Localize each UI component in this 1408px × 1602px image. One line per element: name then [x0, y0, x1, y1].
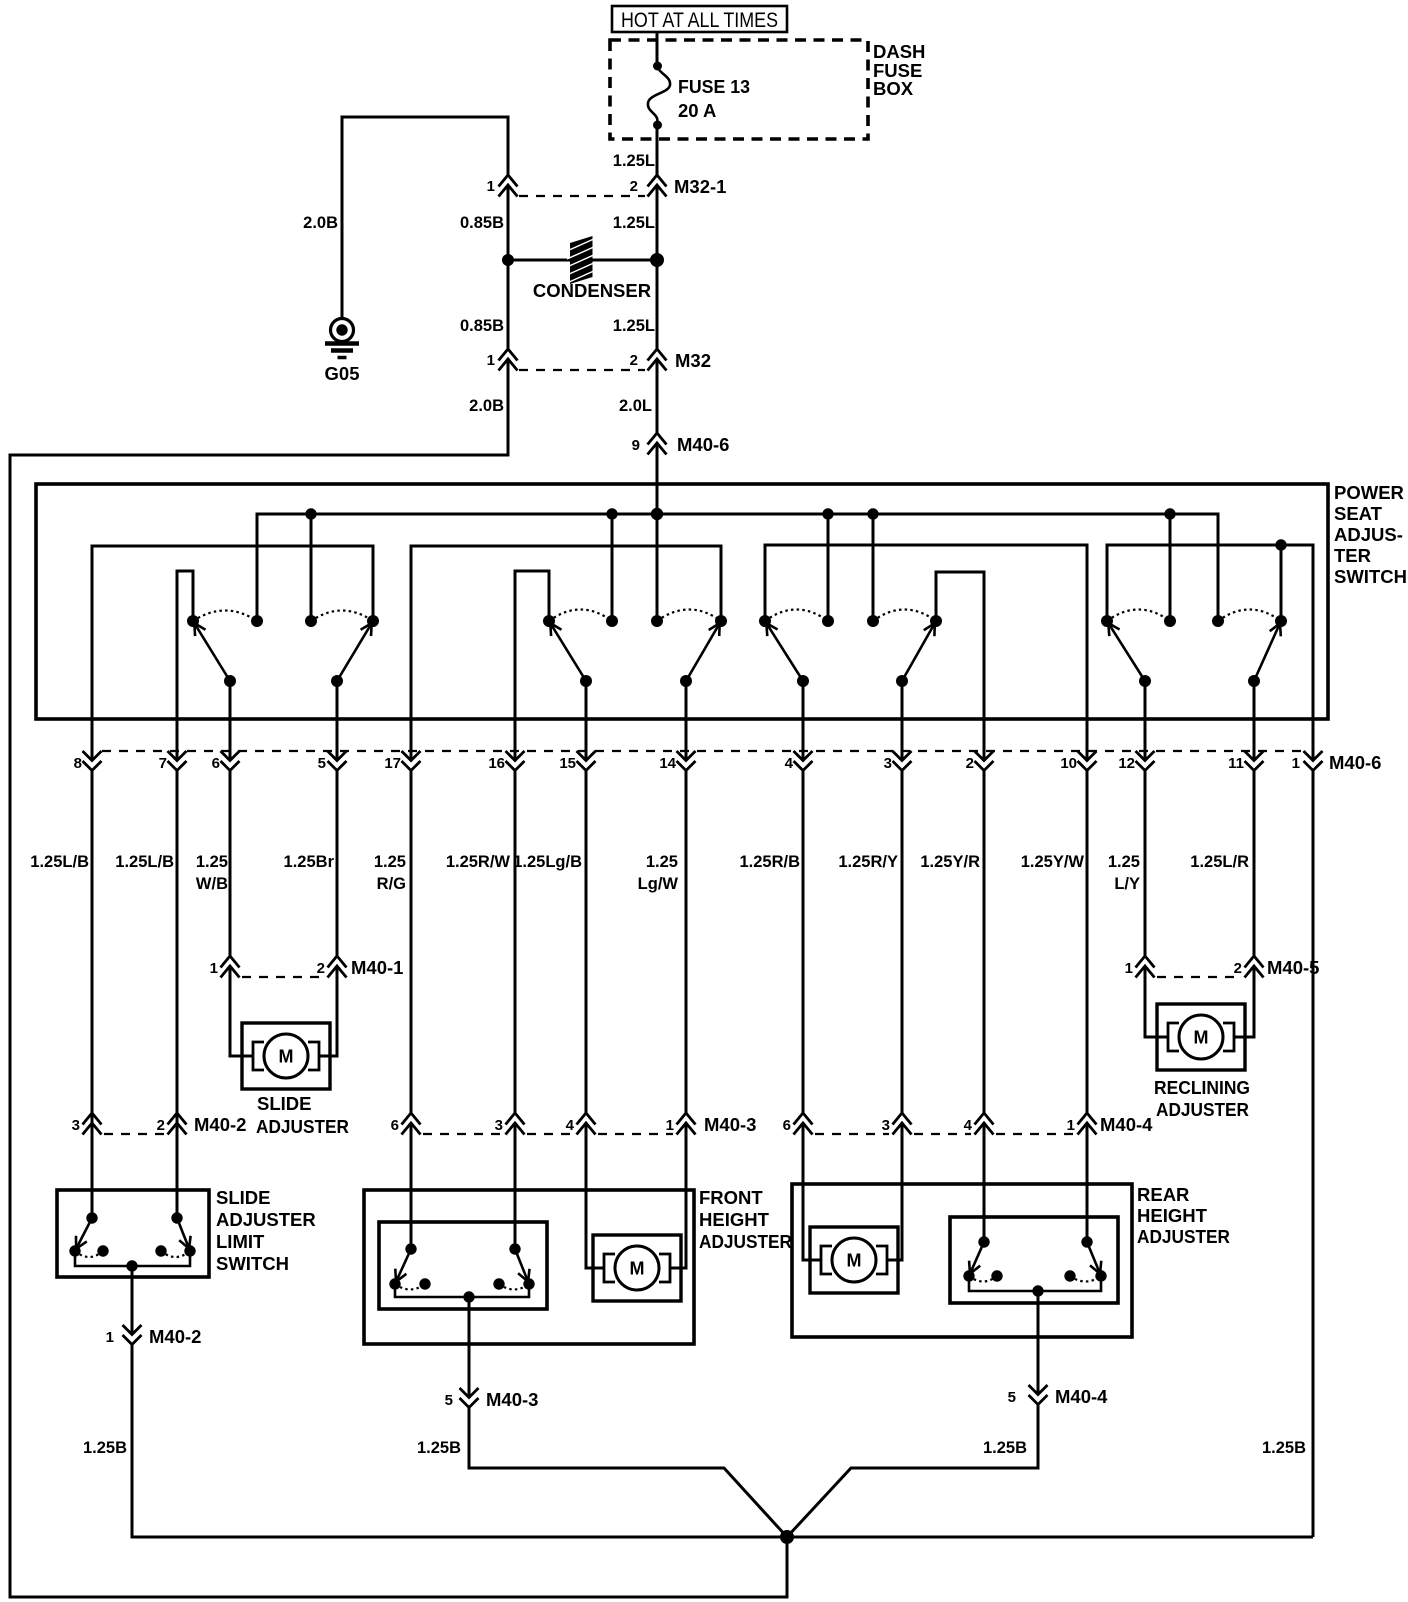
wire from hot feed into fuse box — [656, 31, 659, 66]
svg-text:8: 8 — [74, 755, 82, 772]
connector M40-3 pin 1 — [666, 1113, 757, 1135]
svg-text:M40-2: M40-2 — [194, 1114, 246, 1135]
wire condenser link — [508, 259, 657, 262]
rear switch blades — [969, 1242, 984, 1276]
svg-text:1.25L/B: 1.25L/B — [30, 853, 89, 871]
connector M40-6 pin 8 — [74, 751, 102, 772]
switch 3 feed wire to pin 10 — [765, 545, 1087, 760]
svg-text:HEIGHT: HEIGHT — [1137, 1205, 1208, 1226]
rear switch contacts — [978, 1236, 989, 1247]
dashed connector link M40-1 — [242, 976, 324, 978]
svg-text:SLIDE: SLIDE — [216, 1187, 270, 1208]
connector M32-1 pin 1 — [487, 175, 518, 197]
svg-text:1: 1 — [487, 178, 495, 195]
connector M40-4 pin 4 — [964, 1113, 994, 1135]
svg-text:6: 6 — [783, 1117, 791, 1134]
switch 1 feed wire from pin 8 — [92, 546, 373, 760]
svg-text:6: 6 — [391, 1117, 399, 1134]
switch 4 contact dots — [1101, 615, 1113, 627]
svg-text:20 A: 20 A — [678, 100, 716, 121]
dashed connector link M40-5 — [1157, 976, 1241, 978]
svg-text:ADJUSTER: ADJUSTER — [216, 1209, 316, 1230]
svg-text:M40-4: M40-4 — [1055, 1386, 1108, 1407]
switch 1 contact dots — [187, 615, 199, 627]
svg-text:M40-2: M40-2 — [149, 1326, 201, 1347]
wire down to M32 pin 1 — [507, 260, 510, 349]
svg-text:1.25L/R: 1.25L/R — [1190, 853, 1249, 871]
connector M40-6 pin 6 — [212, 751, 240, 772]
connector M40-6 pin 14 — [659, 751, 695, 772]
switch 4 dashed throw arcs — [1107, 610, 1170, 622]
motor reclining adjuster — [1154, 1004, 1250, 1120]
connector M40-6 pin 12 — [1118, 751, 1154, 772]
ground bus wire from M40-2 — [132, 1345, 1313, 1538]
switch 3 dashed throw arcs — [765, 610, 828, 622]
wire pin10 to M40-4 pin1 — [1086, 770, 1089, 1113]
svg-text:1.25R/W: 1.25R/W — [446, 853, 511, 871]
svg-text:1.25L: 1.25L — [613, 317, 655, 335]
svg-text:1: 1 — [210, 960, 218, 977]
switch 2 contact dots — [543, 615, 555, 627]
svg-text:R/G: R/G — [377, 875, 406, 893]
rear switch dashed arcs — [969, 1276, 997, 1282]
svg-text:11: 11 — [1228, 755, 1244, 772]
svg-text:FUSE 13: FUSE 13 — [678, 76, 750, 97]
node junction left — [502, 254, 514, 266]
svg-text:W/B: W/B — [196, 875, 228, 893]
wire limit switch to M40-2 pin1 — [131, 1266, 134, 1335]
svg-text:DASH: DASH — [873, 41, 925, 62]
connector M40-3 pin 6 — [391, 1113, 421, 1135]
dashed connector link M40-2 — [104, 1133, 164, 1135]
svg-text:1.25B: 1.25B — [83, 1439, 127, 1457]
switch 4 blades — [1107, 621, 1145, 681]
switch 4 feed wire to pin 1 — [1107, 545, 1313, 760]
rear motor feed wires — [803, 1123, 821, 1260]
svg-text:1.25L: 1.25L — [613, 152, 655, 170]
svg-text:2.0L: 2.0L — [619, 397, 652, 415]
svg-text:16: 16 — [488, 755, 505, 772]
svg-text:5: 5 — [318, 755, 326, 772]
wire to ground loop — [342, 117, 508, 318]
svg-text:5: 5 — [1008, 1389, 1016, 1406]
svg-text:3: 3 — [495, 1117, 503, 1134]
svg-text:1: 1 — [106, 1329, 114, 1346]
dash fuse box — [610, 40, 925, 139]
switch 2 feed wire from pin 17 — [411, 546, 721, 760]
connector M32-1 pin 2 — [630, 175, 727, 197]
svg-text:1.25Y/W: 1.25Y/W — [1021, 853, 1085, 871]
bus tap wires — [310, 514, 313, 621]
svg-text:2.0B: 2.0B — [303, 214, 338, 232]
svg-text:HOT AT ALL TIMES: HOT AT ALL TIMES — [621, 9, 778, 32]
fuse F13 20A — [648, 62, 750, 130]
wire M32-1 pin1 down to condenser node — [507, 185, 510, 260]
ground wire from M40-3 — [469, 1408, 787, 1538]
svg-text:1: 1 — [1067, 1117, 1075, 1134]
connector M40-4 pin 5 — [1008, 1385, 1108, 1407]
node junction right — [650, 253, 664, 267]
svg-text:TER: TER — [1334, 545, 1371, 566]
node HOT AT ALL TIMES — [612, 6, 787, 32]
wire fuse to connector M32-1 — [656, 125, 659, 175]
svg-text:7: 7 — [159, 755, 167, 772]
svg-text:1.25Y/R: 1.25Y/R — [920, 853, 980, 871]
connector M40-5 pin 2 — [1234, 956, 1320, 978]
wire pin14 to M40-3 pin1 — [685, 770, 688, 1113]
svg-text:SWITCH: SWITCH — [1334, 566, 1407, 587]
svg-text:1.25: 1.25 — [1108, 853, 1140, 871]
capacitor CONDENSER — [533, 236, 651, 301]
svg-text:0.85B: 0.85B — [460, 214, 504, 232]
wire pin8 to limit switch — [91, 770, 94, 1218]
front switch blades — [395, 1249, 411, 1284]
rear switch lower dots — [963, 1270, 974, 1281]
front switch contacts — [405, 1243, 416, 1254]
svg-text:ADJUSTER: ADJUSTER — [1137, 1226, 1230, 1247]
svg-text:CONDENSER: CONDENSER — [533, 280, 651, 301]
svg-text:12: 12 — [1118, 755, 1135, 772]
dashed connector link M32-1 — [519, 195, 645, 197]
wire pin6 to M40-1 pin1 — [229, 770, 232, 956]
connector M40-1 pin 2 — [317, 956, 404, 978]
connector M40-4 pin 1 — [1067, 1113, 1153, 1135]
wire M40-5 pin1 to reclining motor — [1145, 966, 1168, 1037]
front height adjuster box — [364, 1187, 792, 1344]
wire pin15 to M40-3 pin4 — [585, 770, 588, 1113]
motor front height adjuster — [593, 1235, 681, 1301]
connector M40-6 pin 10 — [1060, 751, 1096, 772]
switch 4 tap wire — [1280, 545, 1283, 621]
connector M40-6 pin 1 — [1292, 751, 1323, 772]
dashed connector link M40-3 — [423, 1133, 502, 1135]
switch 2 dashed throw arcs — [549, 610, 612, 622]
switch 1 pole wires — [229, 681, 232, 760]
connector M40-6 pin 16 — [488, 751, 524, 772]
ground junction node — [780, 1530, 794, 1544]
switch 3 jog wire from pin 2 — [936, 572, 984, 760]
rear height adjuster box — [792, 1184, 1230, 1337]
connector M40-1 pin 1 — [210, 956, 240, 978]
svg-text:1.25B: 1.25B — [417, 1439, 461, 1457]
wire pin2 to M40-4 pin4 — [983, 770, 986, 1113]
connector M40-4 pin 3 — [882, 1113, 912, 1135]
svg-text:2: 2 — [157, 1117, 165, 1134]
svg-text:3: 3 — [884, 755, 892, 772]
svg-text:M32: M32 — [675, 350, 711, 371]
rear height switch box — [950, 1217, 1118, 1303]
main feed wire into switch — [656, 443, 659, 621]
connector M40-4 pin 6 — [783, 1113, 813, 1135]
rear switch feed wires — [983, 1123, 986, 1242]
front switch feed wires — [410, 1123, 413, 1249]
bus junction dots — [305, 508, 316, 519]
connector M40-6 pin 17 — [384, 751, 420, 772]
switch 3 pole dots — [797, 675, 809, 687]
svg-text:1: 1 — [1125, 960, 1133, 977]
ground G05 — [325, 319, 360, 385]
svg-text:1.25Br: 1.25Br — [284, 853, 335, 871]
svg-text:9: 9 — [632, 437, 640, 454]
svg-text:2: 2 — [1234, 960, 1242, 977]
bus wire — [257, 514, 1218, 621]
svg-text:1.25: 1.25 — [646, 853, 678, 871]
svg-text:M40-3: M40-3 — [486, 1389, 538, 1410]
svg-text:10: 10 — [1060, 755, 1077, 772]
connector M40-6 pin 9 — [632, 433, 730, 455]
connector M40-6 pin 7 — [159, 751, 187, 772]
svg-text:POWER: POWER — [1334, 482, 1404, 503]
svg-text:4: 4 — [566, 1117, 575, 1134]
connector M40-2 pin 1 — [106, 1325, 202, 1347]
svg-text:SLIDE: SLIDE — [257, 1093, 311, 1114]
wire M40-5 pin2 to reclining motor — [1234, 966, 1254, 1037]
connector M40-6 pin 4 — [785, 751, 813, 772]
svg-text:Lg/W: Lg/W — [638, 875, 679, 893]
svg-text:2: 2 — [966, 755, 974, 772]
svg-text:3: 3 — [72, 1117, 80, 1134]
svg-text:FRONT: FRONT — [699, 1187, 763, 1208]
connector M40-6 pin 11 — [1228, 751, 1263, 772]
limit switch output wire — [75, 1251, 190, 1266]
switch 3 pole wires — [802, 681, 805, 760]
connector M40-6 pin 3 — [884, 751, 912, 772]
limit switch dashed arcs — [75, 1251, 103, 1257]
wire pin16 to M40-3 pin3 — [514, 770, 517, 1113]
connector M40-6 pin 2 — [966, 751, 994, 772]
svg-text:M32-1: M32-1 — [674, 176, 726, 197]
svg-text:4: 4 — [785, 755, 794, 772]
wire M32-1 pin2 down to condenser node — [656, 185, 659, 260]
svg-text:3: 3 — [882, 1117, 890, 1134]
wire M40-1 pin1 to slide motor — [230, 966, 253, 1056]
svg-text:1.25R/B: 1.25R/B — [739, 853, 800, 871]
limit switch blades — [75, 1218, 92, 1251]
svg-text:SWITCH: SWITCH — [216, 1253, 289, 1274]
svg-text:17: 17 — [384, 755, 401, 772]
wire down to M32 pin 2 — [656, 260, 659, 349]
connector M40-3 pin 4 — [566, 1113, 596, 1135]
switch 3 contact dots — [759, 615, 771, 627]
motor rear height adjuster — [810, 1227, 898, 1293]
limit switch lower dots — [69, 1245, 80, 1256]
svg-text:14: 14 — [659, 755, 676, 772]
wire pin7 to limit switch — [176, 770, 179, 1218]
svg-text:6: 6 — [212, 755, 220, 772]
svg-text:0.85B: 0.85B — [460, 317, 504, 335]
wire pin3 to M40-4 pin3 — [901, 770, 904, 1113]
connector M32 pin 1 — [487, 349, 518, 371]
connector M40-6 pin 15 — [559, 751, 595, 772]
svg-text:M40-6: M40-6 — [677, 434, 729, 455]
switch 1 jog wire from pin 7 — [177, 571, 193, 760]
svg-text:G05: G05 — [325, 363, 360, 384]
dashed connector link M32 — [519, 369, 645, 371]
svg-text:M40-1: M40-1 — [351, 957, 403, 978]
switch 4 pole wires — [1144, 681, 1147, 760]
svg-text:1.25: 1.25 — [196, 853, 228, 871]
front switch lower dots — [389, 1278, 400, 1289]
svg-text:ADJUS-: ADJUS- — [1334, 524, 1403, 545]
ground wire from M40-4 — [787, 1405, 1038, 1538]
switch 2 jog wire from pin 16 — [515, 571, 549, 760]
wire pin5 to M40-1 pin2 — [336, 770, 339, 956]
dashed connector link M40-4 — [815, 1133, 889, 1135]
svg-text:LIMIT: LIMIT — [216, 1231, 265, 1252]
wire pin4 to M40-4 pin6 — [802, 770, 805, 1113]
svg-text:M40-4: M40-4 — [1100, 1114, 1153, 1135]
connector M40-5 pin 1 — [1125, 956, 1155, 978]
svg-text:M40-6: M40-6 — [1329, 752, 1381, 773]
svg-text:RECLINING: RECLINING — [1154, 1077, 1250, 1098]
svg-text:2: 2 — [630, 352, 638, 369]
front switch output wire — [395, 1284, 529, 1297]
connector M32 pin 2 — [630, 349, 711, 371]
wire pin11 to M40-5 pin2 — [1253, 770, 1256, 956]
svg-text:1: 1 — [1292, 755, 1300, 772]
rear switch output wire — [969, 1276, 1101, 1291]
power seat adjuster switch box — [36, 482, 1407, 719]
motor slide adjuster — [242, 1023, 349, 1137]
wire M40-1 pin2 to slide motor — [319, 966, 337, 1056]
svg-text:REAR: REAR — [1137, 1184, 1189, 1205]
svg-text:ADJUSTER: ADJUSTER — [1156, 1099, 1249, 1120]
svg-text:1.25B: 1.25B — [1262, 1439, 1306, 1457]
svg-text:4: 4 — [964, 1117, 973, 1134]
switch 2 pole wires — [585, 681, 588, 760]
connector M40-2 pin 2 — [157, 1113, 247, 1135]
dashed connector link M40-6 row — [102, 750, 1303, 752]
wire front switch to M40-3 pin5 — [468, 1297, 471, 1398]
connector M40-3 pin 5 — [445, 1388, 539, 1410]
svg-text:HEIGHT: HEIGHT — [699, 1209, 770, 1230]
svg-text:ADJUSTER: ADJUSTER — [699, 1231, 792, 1252]
slide adjuster limit switch box — [57, 1187, 316, 1277]
svg-text:15: 15 — [559, 755, 576, 772]
svg-text:ADJUSTER: ADJUSTER — [256, 1116, 349, 1137]
wire M32 pin2 down to M40-6 — [656, 359, 659, 433]
switch 2 pole dots — [580, 675, 592, 687]
svg-text:M40-5: M40-5 — [1267, 957, 1319, 978]
switch 1 blades — [193, 621, 230, 681]
svg-text:2: 2 — [630, 178, 638, 195]
svg-text:1.25B: 1.25B — [983, 1439, 1027, 1457]
wire pin17 to M40-3 pin6 — [410, 770, 413, 1113]
wire pin1 to ground bus — [1312, 770, 1315, 1537]
svg-text:1: 1 — [666, 1117, 674, 1134]
svg-text:2.0B: 2.0B — [469, 397, 504, 415]
connector M40-2 pin 3 — [72, 1113, 102, 1135]
switch 1 dashed throw arcs — [193, 611, 257, 622]
svg-text:1.25L/B: 1.25L/B — [115, 853, 174, 871]
switch 4 pole dots — [1139, 675, 1151, 687]
front motor feed wires — [586, 1123, 604, 1268]
svg-text:1.25Lg/B: 1.25Lg/B — [513, 853, 582, 871]
svg-text:2: 2 — [317, 960, 325, 977]
front height switch box — [379, 1222, 547, 1309]
svg-text:L/Y: L/Y — [1114, 875, 1140, 893]
connector M40-3 pin 3 — [495, 1113, 525, 1135]
ground return frame wire — [10, 359, 787, 1597]
svg-text:5: 5 — [445, 1392, 453, 1409]
wire pin12 to M40-5 pin1 — [1144, 770, 1147, 956]
switch 3 blades — [765, 621, 803, 681]
limit switch contacts — [86, 1212, 97, 1223]
front switch dashed arcs — [395, 1284, 425, 1290]
svg-text:1: 1 — [487, 352, 495, 369]
connector M40-6 pin 5 — [318, 751, 347, 772]
svg-text:SEAT: SEAT — [1334, 503, 1383, 524]
wire rear switch to M40-4 pin5 — [1037, 1291, 1040, 1395]
switch 2 blades — [549, 621, 586, 681]
svg-text:1.25R/Y: 1.25R/Y — [838, 853, 898, 871]
svg-text:M40-3: M40-3 — [704, 1114, 756, 1135]
svg-text:BOX: BOX — [873, 78, 914, 99]
svg-text:1.25L: 1.25L — [613, 214, 655, 232]
switch 1 pole dots — [224, 675, 236, 687]
svg-text:1.25: 1.25 — [374, 853, 406, 871]
